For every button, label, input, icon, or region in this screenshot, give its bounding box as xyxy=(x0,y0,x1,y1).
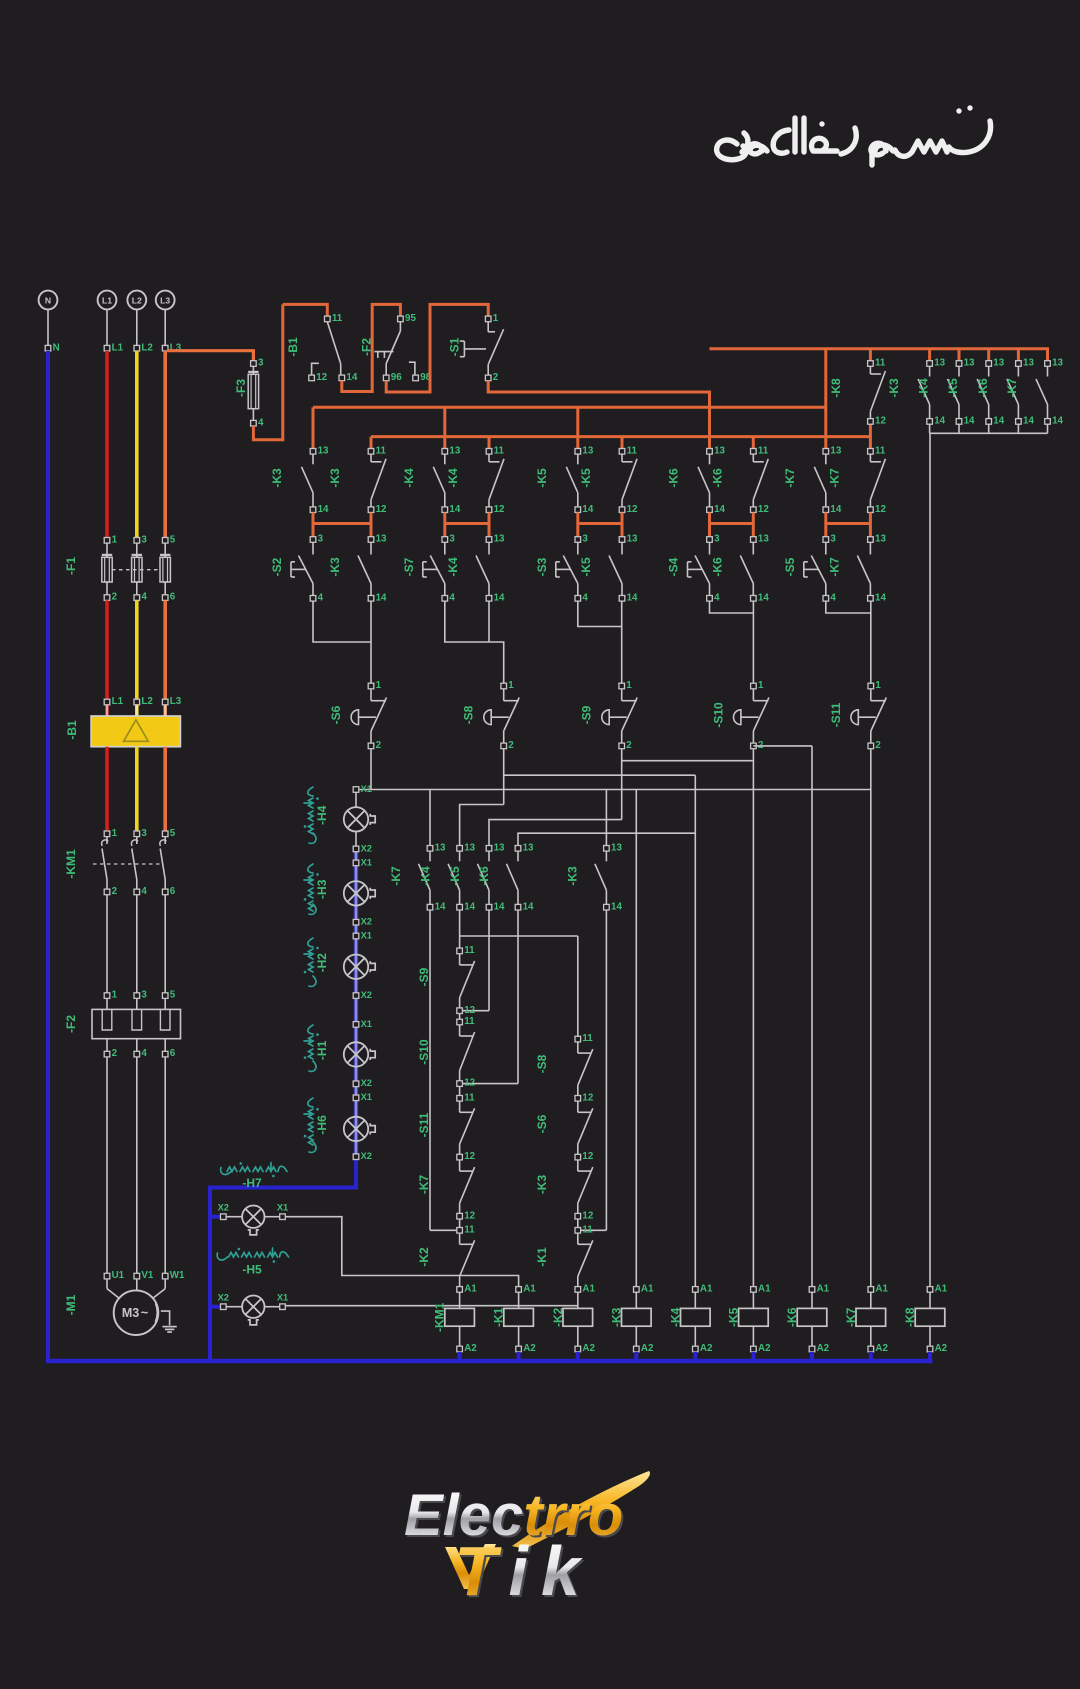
contactor coil K2 (-K2) xyxy=(563,1292,593,1346)
wire N neutral (blue) down left side xyxy=(46,351,50,1361)
svg-text:96: 96 xyxy=(391,372,402,383)
wire node line y=789.5 (H4/K7-13/K3-13 feed) xyxy=(356,789,871,791)
svg-text:14: 14 xyxy=(611,901,622,912)
contactor coil K6 (-K6) xyxy=(797,1292,827,1346)
svg-text:W1: W1 xyxy=(170,1270,185,1281)
svg-text:4: 4 xyxy=(714,592,720,603)
wire F3 output to control circuit riser xyxy=(253,304,282,439)
svg-text:A2: A2 xyxy=(700,1343,713,1354)
svg-text:L1: L1 xyxy=(112,342,124,353)
orange bridge K4 row1 to row2 xyxy=(443,513,446,537)
svg-text:12: 12 xyxy=(875,504,886,515)
svg-text:L1: L1 xyxy=(112,696,124,707)
svg-text:5: 5 xyxy=(170,828,176,839)
svg-text:-K8: -K8 xyxy=(829,378,843,398)
svg-text:A2: A2 xyxy=(935,1343,948,1354)
svg-text:-S4: -S4 xyxy=(667,557,681,576)
svg-text:2: 2 xyxy=(508,740,514,751)
auxiliary contact K6 NO (13/14) feeding K8 coil xyxy=(1017,349,1020,361)
svg-text:A2: A2 xyxy=(641,1343,654,1354)
svg-text:4: 4 xyxy=(582,592,588,603)
wire S8 branch to K4-13 xyxy=(460,805,504,846)
svg-text:M3: M3 xyxy=(122,1306,139,1320)
svg-text:3: 3 xyxy=(141,990,147,1001)
svg-text:A1: A1 xyxy=(758,1284,771,1295)
svg-text:L2: L2 xyxy=(141,342,153,353)
svg-text:13: 13 xyxy=(830,445,841,456)
bus2 drop to K4-11 xyxy=(488,437,491,449)
join wire S5/K7 to S11 xyxy=(826,601,871,613)
wire L2 (yellow) B1 to KM1 xyxy=(135,747,139,831)
svg-text:-K7: -K7 xyxy=(844,1307,858,1327)
svg-text:13: 13 xyxy=(318,445,329,456)
svg-text:-K2: -K2 xyxy=(417,1247,431,1267)
svg-text:4: 4 xyxy=(830,592,836,603)
svg-text:A1: A1 xyxy=(523,1284,536,1295)
wire F2 to motor pole 2 xyxy=(136,1057,138,1273)
indicator lamp H3 xyxy=(344,881,368,905)
svg-text:13: 13 xyxy=(1052,358,1063,369)
svg-text:-K1: -K1 xyxy=(492,1307,506,1327)
svg-text:-S1: -S1 xyxy=(447,337,461,356)
svg-text:3: 3 xyxy=(141,828,147,839)
wire K8-12 to bus2 and K7-11 xyxy=(869,424,872,448)
svg-text:-K7: -K7 xyxy=(827,557,841,577)
svg-text:-S7: -S7 xyxy=(402,557,416,576)
svg-text:A1: A1 xyxy=(641,1284,654,1295)
svg-text:12: 12 xyxy=(464,1151,475,1162)
svg-text:-S5: -S5 xyxy=(783,557,797,576)
svg-text:L1: L1 xyxy=(102,295,112,305)
svg-text:13: 13 xyxy=(449,445,460,456)
auxiliary contact K3 NO (13/14) feeding K8 coil xyxy=(928,349,931,361)
svg-text:1: 1 xyxy=(376,680,382,691)
bus1 drop to K3-13 xyxy=(312,407,315,448)
svg-text:-H3: -H3 xyxy=(315,879,329,899)
svg-text:-K5: -K5 xyxy=(726,1307,740,1327)
svg-text:13: 13 xyxy=(993,358,1004,369)
svg-text:-K3: -K3 xyxy=(887,378,901,398)
bus1 drop to K4-13 xyxy=(443,407,446,448)
svg-text:-H7: -H7 xyxy=(242,1176,262,1190)
svg-text:14: 14 xyxy=(964,416,975,427)
svg-text:-K4: -K4 xyxy=(446,468,460,488)
svg-text:11: 11 xyxy=(758,445,769,456)
svg-text:4: 4 xyxy=(141,592,147,603)
svg-text:12: 12 xyxy=(582,1210,593,1221)
svg-text:X1: X1 xyxy=(361,857,372,867)
svg-text:13: 13 xyxy=(464,842,475,853)
svg-text:-K8: -K8 xyxy=(903,1307,917,1327)
svg-text:2: 2 xyxy=(112,592,118,603)
indicator lamp H2 xyxy=(344,955,368,979)
svg-text:A1: A1 xyxy=(875,1284,888,1295)
svg-text:-K3: -K3 xyxy=(328,557,342,577)
svg-text:A2: A2 xyxy=(758,1343,771,1354)
svg-text:A2: A2 xyxy=(817,1343,830,1354)
svg-text:-K7: -K7 xyxy=(417,1175,431,1195)
svg-text:X2: X2 xyxy=(361,917,372,927)
wire S10-12 to S11-11 xyxy=(459,1086,461,1095)
svg-text:X1: X1 xyxy=(361,930,372,940)
svg-text:6: 6 xyxy=(170,1048,176,1059)
svg-text:X2: X2 xyxy=(218,1202,229,1212)
fuse linkage dashed line xyxy=(112,569,161,571)
svg-text:14: 14 xyxy=(875,592,886,603)
svg-text:-H1: -H1 xyxy=(315,1040,329,1060)
svg-text:-K5: -K5 xyxy=(579,468,593,488)
bus2 drop to K6-13 xyxy=(708,437,711,449)
svg-text:13: 13 xyxy=(627,534,638,545)
contactor coil K1 (-K1) xyxy=(504,1292,534,1346)
wire branch K4-14 to S8-11 xyxy=(460,935,578,937)
KM1 linkage dashed line xyxy=(93,863,161,865)
svg-text:-S11: -S11 xyxy=(829,702,843,727)
svg-text:13: 13 xyxy=(964,358,975,369)
svg-text:-K3: -K3 xyxy=(328,468,342,488)
svg-text:-K6: -K6 xyxy=(785,1307,799,1327)
svg-text:13: 13 xyxy=(582,445,593,456)
svg-text:11: 11 xyxy=(332,313,343,324)
wire B1-14 to F2-95 xyxy=(342,304,401,391)
auxiliary contact K4 NO (13/14) feeding K8 coil xyxy=(958,349,961,361)
svg-text:11: 11 xyxy=(875,445,886,456)
wire S1-2 to top distribution bus xyxy=(488,381,709,438)
svg-text:A1: A1 xyxy=(935,1284,948,1295)
svg-text:11: 11 xyxy=(464,1224,475,1235)
wire K6-14 down to S10-12 xyxy=(517,910,519,1084)
wire L1 (red) to F1 xyxy=(105,351,109,538)
bus2 drop to K3-11 xyxy=(370,437,373,449)
svg-text:14: 14 xyxy=(714,504,725,515)
svg-text:1: 1 xyxy=(626,680,632,691)
wire F2-96 to S1 xyxy=(386,304,488,392)
auxiliary contact K5 NO (13/14) feeding K8 coil xyxy=(987,349,990,361)
svg-text:12: 12 xyxy=(316,372,327,383)
svg-text:13: 13 xyxy=(494,842,505,853)
svg-text:3: 3 xyxy=(714,534,720,545)
svg-text:L3: L3 xyxy=(160,295,170,305)
join wire S2/K3 to S6 xyxy=(313,601,371,642)
supply terminal N xyxy=(39,291,58,310)
svg-text:-K3: -K3 xyxy=(270,468,284,488)
svg-text:X1: X1 xyxy=(361,784,372,794)
svg-text:-K4: -K4 xyxy=(402,468,416,488)
svg-text:-K3: -K3 xyxy=(565,866,579,886)
svg-text:1: 1 xyxy=(112,828,118,839)
wire L1 (red) F1 to B1 xyxy=(105,600,109,716)
svg-text:-S6: -S6 xyxy=(329,705,343,724)
svg-text:95: 95 xyxy=(405,313,416,324)
svg-text:-H6: -H6 xyxy=(315,1115,329,1135)
wire L3 (orange) B1 to KM1 xyxy=(163,747,167,831)
svg-text:1: 1 xyxy=(875,680,881,691)
distribution bus 2 (orange) xyxy=(371,435,870,438)
wire K5-14 down to S9-12 xyxy=(488,910,490,1011)
svg-text:13: 13 xyxy=(714,445,725,456)
svg-text:12: 12 xyxy=(758,504,769,515)
svg-text:A1: A1 xyxy=(817,1284,830,1295)
svg-text:14: 14 xyxy=(318,504,329,515)
wire KM1 to F2 pole 2 xyxy=(136,895,138,993)
wire S10-2 branch to K6 coil column xyxy=(753,745,812,747)
indicator lamp H1 xyxy=(344,1042,368,1066)
svg-text:1: 1 xyxy=(508,680,514,691)
svg-text:3: 3 xyxy=(582,534,588,545)
svg-text:14: 14 xyxy=(376,592,387,603)
wire S9-2 down xyxy=(621,749,623,820)
svg-text:5: 5 xyxy=(170,990,176,1001)
svg-text:-K6: -K6 xyxy=(710,557,724,577)
svg-text:6: 6 xyxy=(170,886,176,897)
supply terminal L2 xyxy=(127,291,146,310)
svg-text:-K5: -K5 xyxy=(946,378,960,398)
svg-text:X2: X2 xyxy=(218,1292,229,1302)
svg-text:14: 14 xyxy=(523,901,534,912)
join wire S4/K6 to S10 xyxy=(710,601,754,613)
svg-text:2: 2 xyxy=(875,740,881,751)
svg-text:3: 3 xyxy=(318,534,324,545)
svg-text:-K6: -K6 xyxy=(477,866,491,886)
top bus drop to K8-11 xyxy=(869,349,872,361)
svg-text:-B1: -B1 xyxy=(65,720,79,740)
orange bridge K6 row1 to row2 xyxy=(708,513,711,537)
svg-text:2: 2 xyxy=(112,1048,118,1059)
wire riser to B1 contact xyxy=(283,304,328,316)
wire KM1 to F2 pole 3 xyxy=(164,895,166,993)
wire K6-13 feed line y=833.2 xyxy=(518,833,695,845)
svg-text:-K5: -K5 xyxy=(579,557,593,577)
svg-text:X2: X2 xyxy=(361,843,372,853)
wire F2 to motor pole 3 xyxy=(164,1057,166,1273)
svg-text:12: 12 xyxy=(464,1005,475,1016)
svg-text:-S10: -S10 xyxy=(711,702,725,728)
svg-text:11: 11 xyxy=(875,358,886,369)
svg-text:N: N xyxy=(53,342,60,353)
indicator lamp H4 xyxy=(355,792,357,807)
wire KM1 to F2 pole 1 xyxy=(106,895,108,993)
svg-text:12: 12 xyxy=(875,416,886,427)
svg-text:A2: A2 xyxy=(582,1343,595,1354)
svg-text:-H4: -H4 xyxy=(315,805,329,825)
svg-text:A2: A2 xyxy=(523,1343,536,1354)
neutral wire behind lamp column (blue) xyxy=(354,849,358,1157)
svg-text:4: 4 xyxy=(141,1048,147,1059)
wire L3 (orange) F1 to B1 xyxy=(163,600,167,716)
svg-text:-S9: -S9 xyxy=(580,705,594,724)
contactor coil K4 (-K4) xyxy=(681,1292,711,1346)
svg-text:3: 3 xyxy=(830,534,836,545)
contactor coil K5 (-K5) xyxy=(739,1292,769,1346)
wire S8 branch to K4 coil column xyxy=(504,774,696,776)
svg-text:-S2: -S2 xyxy=(270,557,284,576)
svg-text:-K4: -K4 xyxy=(446,557,460,577)
svg-text:V1: V1 xyxy=(141,1270,154,1281)
svg-text:-KM1: -KM1 xyxy=(433,1302,447,1332)
logo ElectrroTik xyxy=(404,1471,650,1612)
svg-text:-S8: -S8 xyxy=(535,1054,549,1073)
svg-text:4: 4 xyxy=(449,592,455,603)
wire drop to K3 coil column xyxy=(635,790,637,1287)
svg-text:-S6: -S6 xyxy=(535,1114,549,1133)
wire S9 branch to K5-13 xyxy=(489,820,622,846)
contactor coil K3 (-K3) xyxy=(622,1292,652,1346)
svg-text:14: 14 xyxy=(934,416,945,427)
wire L1 (red) B1 to KM1 xyxy=(105,747,109,831)
svg-text:13: 13 xyxy=(611,842,622,853)
svg-text:-S10: -S10 xyxy=(417,1039,431,1065)
svg-text:-F3: -F3 xyxy=(234,379,248,397)
svg-text:-K6: -K6 xyxy=(710,468,724,488)
svg-text:-K7: -K7 xyxy=(389,866,403,886)
svg-text:-S9: -S9 xyxy=(417,967,431,986)
join wire S3/K5 to S9 xyxy=(578,601,622,626)
wire S10-2 down to K5 coil xyxy=(752,749,754,1287)
label Persian 'floor 3' (rotated) xyxy=(304,864,316,914)
svg-text:11: 11 xyxy=(464,945,475,956)
svg-text:-KM1: -KM1 xyxy=(64,849,78,879)
wire H5-X1 to K2 coil xyxy=(285,1305,578,1307)
svg-text:14: 14 xyxy=(464,901,475,912)
svg-text:X1: X1 xyxy=(361,1019,372,1029)
svg-text:11: 11 xyxy=(464,1016,475,1027)
motor M1 (M3~) xyxy=(104,1273,110,1279)
title text 'tarsim reza ahmadi' (Persian, hand-vectored) xyxy=(717,118,991,165)
wire F2 to motor pole 1 xyxy=(106,1057,108,1273)
svg-text:-K4: -K4 xyxy=(917,378,931,398)
svg-text:13: 13 xyxy=(435,842,446,853)
svg-text:-F2: -F2 xyxy=(360,338,374,356)
svg-text:13: 13 xyxy=(376,534,387,545)
svg-text:-K1: -K1 xyxy=(535,1247,549,1267)
svg-text:-S3: -S3 xyxy=(535,557,549,576)
wire K4-14 down to S9-11 xyxy=(459,910,461,948)
svg-text:12: 12 xyxy=(494,504,505,515)
svg-text:13: 13 xyxy=(494,534,505,545)
svg-text:4: 4 xyxy=(258,417,264,428)
wire S8-2 down xyxy=(503,749,505,805)
svg-text:14: 14 xyxy=(627,592,638,603)
wire K3-12 to K1-11 xyxy=(577,1219,579,1228)
svg-text:-K7: -K7 xyxy=(783,468,797,488)
motor earth / ground symbol xyxy=(155,1304,157,1323)
svg-text:13: 13 xyxy=(1023,358,1034,369)
svg-text:X1: X1 xyxy=(277,1292,288,1302)
svg-text:2: 2 xyxy=(112,886,118,897)
orange bridge K3 row1 to row2 xyxy=(312,513,315,537)
label Persian 'down solenoid valve' xyxy=(217,1248,288,1260)
svg-text:12: 12 xyxy=(627,504,638,515)
svg-text:14: 14 xyxy=(758,592,769,603)
soft starter / brake unit B1 (yellow box) xyxy=(104,699,110,705)
svg-text:-K6: -K6 xyxy=(976,378,990,398)
svg-text:12: 12 xyxy=(582,1151,593,1162)
wire lamp column thick neutral to left riser xyxy=(210,1157,356,1361)
wire K8 riser to contact row xyxy=(824,349,827,449)
bus2 drop to K5-11 xyxy=(621,437,624,449)
svg-text:-S11: -S11 xyxy=(417,1112,431,1137)
svg-text:-K2: -K2 xyxy=(551,1307,565,1327)
svg-text:A1: A1 xyxy=(582,1284,595,1295)
label Persian 'floor 4' (rotated) xyxy=(304,787,316,843)
svg-text:A1: A1 xyxy=(464,1284,477,1295)
svg-text:N: N xyxy=(45,295,51,305)
contactor coil K7 (-K7) xyxy=(856,1292,886,1346)
svg-text:-K3: -K3 xyxy=(535,1175,549,1195)
svg-text:14: 14 xyxy=(1052,416,1063,427)
svg-text:-B1: -B1 xyxy=(286,337,300,357)
wire S11-2 down to K7 coil xyxy=(870,749,872,1287)
svg-text:14: 14 xyxy=(449,504,460,515)
svg-text:11: 11 xyxy=(582,1224,593,1235)
svg-text:11: 11 xyxy=(627,445,638,456)
svg-text:5: 5 xyxy=(170,534,176,545)
wire L3 branch to fuse F3 xyxy=(167,351,253,361)
svg-text:L2: L2 xyxy=(141,696,153,707)
svg-text:2: 2 xyxy=(376,740,382,751)
label Persian 'floor 2' (rotated) xyxy=(304,938,316,986)
svg-text:-K5: -K5 xyxy=(535,468,549,488)
svg-text:4: 4 xyxy=(141,886,147,897)
svg-text:6: 6 xyxy=(170,592,176,603)
label Persian 'ground floor' (rotated) xyxy=(304,1098,316,1152)
svg-text:L2: L2 xyxy=(132,295,142,305)
svg-text:13: 13 xyxy=(758,534,769,545)
svg-text:A1: A1 xyxy=(700,1284,713,1295)
svg-text:-S8: -S8 xyxy=(462,705,476,724)
svg-text:14: 14 xyxy=(346,372,357,383)
svg-text:-F2: -F2 xyxy=(64,1015,78,1033)
orange bridge K7 row1 to row2 xyxy=(824,513,827,537)
svg-text:4: 4 xyxy=(318,592,324,603)
svg-text:X2: X2 xyxy=(361,1078,372,1088)
svg-text:12: 12 xyxy=(464,1078,475,1089)
svg-text:-M1: -M1 xyxy=(64,1294,78,1315)
svg-text:-K7: -K7 xyxy=(1005,378,1019,398)
top distribution bus (orange) xyxy=(710,349,1048,361)
svg-text:X2: X2 xyxy=(361,990,372,1000)
svg-text:14: 14 xyxy=(830,504,841,515)
wire H7-X1 to K1 coil xyxy=(285,1217,518,1287)
distribution bus 1 (orange) xyxy=(313,406,826,409)
svg-text:3: 3 xyxy=(258,358,264,369)
svg-text:11: 11 xyxy=(376,445,387,456)
svg-text:X1: X1 xyxy=(361,1092,372,1102)
bus1 drop to K5-13 xyxy=(576,407,579,448)
svg-text:-F1: -F1 xyxy=(64,557,78,575)
svg-text:1: 1 xyxy=(493,313,499,324)
bus2 drop to K6-11 xyxy=(752,437,755,449)
wire S6-2 down to lamp/contact node xyxy=(370,749,372,790)
svg-text:11: 11 xyxy=(582,1033,593,1044)
wire L2 (yellow) F1 to B1 xyxy=(135,600,139,716)
svg-text:~: ~ xyxy=(141,1305,149,1320)
svg-text:L3: L3 xyxy=(170,696,182,707)
wire drop to K7-13 xyxy=(429,790,431,846)
svg-text:A2: A2 xyxy=(875,1343,888,1354)
supply terminal L1 xyxy=(98,291,117,310)
svg-text:14: 14 xyxy=(435,901,446,912)
svg-text:13: 13 xyxy=(875,534,886,545)
wire L2 (yellow) to F1 xyxy=(135,351,139,538)
svg-text:13: 13 xyxy=(934,358,945,369)
supply terminal L3 xyxy=(156,291,175,310)
contactor coil K8 (-K8) xyxy=(915,1292,945,1346)
svg-text:3: 3 xyxy=(141,534,147,545)
svg-text:13: 13 xyxy=(523,842,534,853)
svg-text:12: 12 xyxy=(582,1092,593,1103)
label Persian 'up solenoid valve' xyxy=(221,1163,287,1175)
